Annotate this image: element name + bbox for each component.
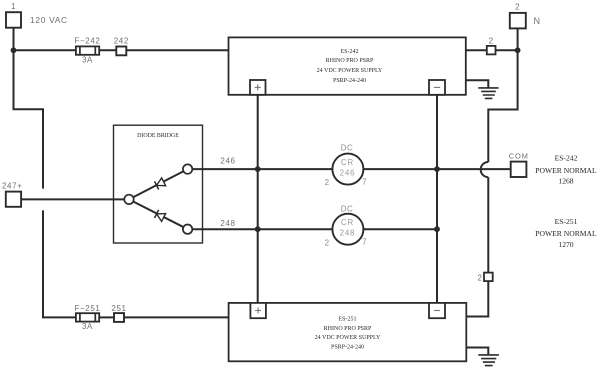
svg-text:1268: 1268 [558,177,573,186]
svg-text:DC: DC [341,205,354,214]
wire left branch down to F-251 [14,50,76,317]
svg-text:246: 246 [340,168,355,177]
label ES-251 POWER NORMAL 1270 [535,217,597,249]
svg-text:2: 2 [325,178,330,187]
wire U1 plus down to U2 plus [257,95,259,303]
svg-text:24 VDC POWER SUPPLY: 24 VDC POWER SUPPLY [317,68,383,74]
wire terminal 2 to node N [496,49,518,51]
power supply U1 ES-242 box [229,37,466,94]
svg-text:ES-242: ES-242 [341,49,359,55]
terminal 1 [6,2,21,28]
node junction N [515,47,521,53]
diode D1 upper [155,178,166,190]
svg-text:2: 2 [325,238,330,247]
relay coil CR246 [325,143,368,187]
terminal 2 small [487,36,496,54]
svg-text:2: 2 [489,36,494,45]
svg-text:N: N [534,16,541,26]
diode bridge lower diagonal wire [129,199,188,229]
diode bridge box [114,125,203,243]
wire to fuse F-242 [14,49,76,51]
wire net 246 to coil CR246 [192,168,332,170]
svg-text:3A: 3A [82,322,93,331]
svg-text:24 VDC POWER SUPPLY: 24 VDC POWER SUPPLY [315,335,381,341]
wire net 248 to coil CR248 [192,228,332,230]
wire U1 right to terminal 2 [466,49,487,51]
wire U1 minus down to U2 minus [436,95,438,303]
svg-text:1270: 1270 [558,240,573,249]
node junction 246 plus [255,166,261,172]
svg-text:PSRP-24-240: PSRP-24-240 [333,78,366,84]
terminal 251 [111,304,126,322]
node junction 248 minus [434,226,440,232]
svg-text:248: 248 [340,228,355,237]
wire coil CR246 to COM [363,168,510,170]
U1 minus terminal [429,80,445,95]
fuse F-251 [75,304,101,331]
svg-text:ES-242: ES-242 [555,153,578,162]
ground U2 [466,348,499,366]
bridge left node circle [124,195,133,204]
wire fuse to terminal 242 [99,49,116,51]
wire hop to terminal 2 lower [487,177,489,272]
bridge bottom node circle [183,225,192,234]
svg-text:248: 248 [220,219,235,228]
svg-text:242: 242 [114,37,129,46]
wire 247+ to bridge [21,198,129,200]
wire fuse F-251 to terminal 251 [99,316,114,318]
terminal 2 N [510,3,541,29]
wire terminal 242 to power supply U1 [126,49,228,51]
svg-text:ES-251: ES-251 [339,317,357,323]
relay coil CR248 [325,205,368,248]
wire terminal1 down [13,28,15,51]
wire terminal 2 lower into U2 [466,281,488,316]
svg-text:PSRP-24-240: PSRP-24-240 [331,344,364,350]
svg-text:DIODE BRIDGE: DIODE BRIDGE [137,133,179,139]
svg-text:7: 7 [362,238,367,247]
wire N terminal down [517,28,519,50]
svg-text:RHINO PRO PSRP: RHINO PRO PSRP [324,326,372,332]
fuse F-242 [75,37,101,65]
terminal COM [509,151,529,177]
bridge top node circle [183,164,192,173]
svg-text:F−251: F−251 [75,304,101,313]
svg-text:POWER NORMAL: POWER NORMAL [535,166,597,175]
diode D2 lower [154,210,165,222]
svg-text:CR: CR [341,158,354,167]
node junction 248 plus [255,226,261,232]
svg-text:POWER NORMAL: POWER NORMAL [535,229,597,238]
svg-text:CR: CR [341,218,354,227]
svg-text:COM: COM [509,151,529,160]
svg-text:DC: DC [341,143,354,152]
node junction top-left [11,47,17,53]
svg-text:246: 246 [220,157,235,166]
svg-text:ES-251: ES-251 [555,217,578,226]
power supply U2 ES-251 box [229,303,467,361]
diode bridge upper diagonal wire [129,169,188,199]
wire terminal 251 to U2 [124,316,229,318]
node junction 246 minus [434,166,440,172]
wire coil CR248 to junction [363,228,437,230]
terminal 247+ [2,182,22,207]
svg-text:251: 251 [111,304,126,313]
svg-text:F−242: F−242 [75,37,101,46]
svg-text:2: 2 [478,274,483,283]
svg-text:2: 2 [515,3,520,12]
svg-text:247+: 247+ [2,182,22,191]
svg-text:7: 7 [362,177,367,186]
ground U1 [466,80,499,98]
svg-text:3A: 3A [82,56,93,65]
terminal 2 lower [478,273,493,283]
terminal 242 [114,37,129,56]
svg-text:1: 1 [11,2,16,11]
label ES-242 POWER NORMAL 1268 [535,153,597,185]
U2 plus terminal [250,303,266,318]
U1 plus terminal [250,80,266,95]
svg-text:120 VAC: 120 VAC [30,15,68,25]
wire N line down right side [488,50,517,162]
wire hop over 246 line [481,162,489,177]
U2 minus terminal [429,303,445,318]
svg-text:RHINO PRO PSRP: RHINO PRO PSRP [326,58,374,64]
